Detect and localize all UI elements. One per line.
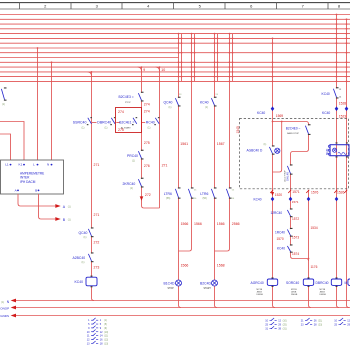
contact A2BC40 <box>73 252 94 264</box>
wire to ammeter K2 <box>0 122 24 161</box>
svg-text:1523: 1523 <box>339 115 347 119</box>
wire column LTR6 aux (x=229.5) <box>215 33 231 251</box>
svg-text:1572: 1572 <box>292 217 299 221</box>
svg-text:KC40: KC40 <box>257 111 265 115</box>
label KC40 at connector <box>254 197 262 201</box>
contact B2C4E3 <box>119 92 144 104</box>
wire number 1526 <box>337 190 345 194</box>
svg-text:1576: 1576 <box>311 190 319 194</box>
svg-text:1526: 1526 <box>337 190 345 194</box>
svg-text:(56): (56) <box>203 197 207 200</box>
svg-text:N: N <box>47 163 49 167</box>
wire number 1176 <box>311 265 318 269</box>
wire number 10 <box>161 68 165 72</box>
wire number 1571 b <box>292 200 299 204</box>
wire number 1566 d <box>181 264 189 268</box>
wire number 1534 <box>311 226 318 230</box>
svg-text:(1): (1) <box>68 206 71 209</box>
svg-text:(12): (12) <box>104 339 108 341</box>
svg-text:L1: L1 <box>5 163 9 167</box>
wire number 1520 <box>275 193 283 197</box>
wire number 1523 <box>339 115 347 119</box>
wire drop to ammeter L4 <box>37 47 39 160</box>
wire number 1528 <box>339 101 347 105</box>
wire pin A to arrow <box>18 194 71 209</box>
pushbutton AGBC40 <box>247 144 280 155</box>
contact DBRC40 <box>97 117 115 130</box>
svg-text:275: 275 <box>118 128 124 132</box>
rail N <box>1 299 350 305</box>
contact QC40 aux <box>79 227 94 239</box>
connector diamond a <box>322 106 338 114</box>
arrow junction col141 <box>140 196 144 200</box>
svg-text:12RC40: 12RC40 <box>271 211 283 215</box>
wire number 1567 <box>217 142 225 146</box>
svg-text:2KRC40: 2KRC40 <box>123 182 136 186</box>
contact KC40 right <box>322 87 342 98</box>
ammeter box AMPEREMETRE INTER IPH DACM <box>1 160 64 194</box>
wire B2C4E0 to SHL40 jog <box>291 124 310 261</box>
wire column node 271 (x=91) <box>91 71 94 301</box>
svg-text:SSRC40: SSRC40 <box>73 120 87 124</box>
svg-text:(25): (25) <box>283 324 287 326</box>
contact 12RC40 <box>271 208 300 220</box>
wire column 1569 (x=272) <box>272 38 275 308</box>
svg-text:SANS STOP: SANS STOP <box>287 132 299 135</box>
terminal switch group B <box>265 318 287 331</box>
svg-text:KC40: KC40 <box>254 197 262 201</box>
terminal switch group D <box>334 318 350 326</box>
wire number 271 <box>94 163 100 167</box>
connector diamond b <box>345 106 349 111</box>
wire number 274 b <box>144 109 150 113</box>
svg-text:PTOP: PTOP <box>125 102 131 104</box>
svg-text:IPH DACM: IPH DACM <box>20 180 36 184</box>
wire column 9 (x=141) <box>141 66 160 208</box>
svg-text:LTR6: LTR6 <box>164 192 172 196</box>
svg-text:Chute STOP: Chute STOP <box>283 170 286 182</box>
svg-text:START: START <box>204 287 212 290</box>
svg-text:(1): (1) <box>2 103 5 106</box>
svg-text:272: 272 <box>94 241 100 245</box>
svg-text:1561: 1561 <box>180 142 188 146</box>
svg-text:(1): (1) <box>130 187 133 190</box>
bus tap stub wires cluster <box>181 34 234 82</box>
contact SHL40 <box>283 164 292 182</box>
svg-text:L: L <box>33 163 35 167</box>
svg-text:(1): (1) <box>132 159 135 162</box>
connector KC40 mid <box>257 106 274 114</box>
wire corner feeds <box>88 67 160 76</box>
wire number 271 right <box>162 164 168 168</box>
svg-text:10: 10 <box>161 68 165 72</box>
svg-text:B2C4E0 ~: B2C4E0 ~ <box>286 127 301 131</box>
svg-text:1566: 1566 <box>181 264 189 268</box>
svg-text:275: 275 <box>144 141 150 145</box>
wire number 274 <box>144 103 150 107</box>
svg-text:(21): (21) <box>318 320 322 322</box>
svg-text:KC40: KC40 <box>277 247 285 251</box>
wire number 1576 <box>311 190 319 194</box>
wire number 1566 c <box>217 222 225 226</box>
svg-text:(1): (1) <box>82 261 85 264</box>
contact LTR6 c <box>200 187 216 200</box>
relay block MC40 <box>327 142 349 157</box>
svg-text:(1): (1) <box>68 219 71 222</box>
wire column 10 (x=159.5) <box>159 66 161 208</box>
contact KC40 lower <box>277 244 299 255</box>
svg-text:274: 274 <box>144 103 150 107</box>
svg-text:(31): (31) <box>283 329 287 331</box>
wire number 1569 <box>276 114 284 118</box>
label 1545 rotated <box>236 126 240 134</box>
svg-text:1520: 1520 <box>275 193 283 197</box>
contact B2C4E0 <box>286 124 311 135</box>
pushbutton B2C4D <box>200 280 218 290</box>
wire number 273 <box>94 266 100 270</box>
column ruler header <box>0 3 350 9</box>
coil edge partial <box>345 279 350 285</box>
terminal switch group left <box>87 318 109 345</box>
svg-text:AGBC40 D: AGBC40 D <box>247 149 263 153</box>
svg-text:B: B <box>35 189 37 193</box>
svg-text:RC40: RC40 <box>146 120 155 124</box>
svg-text:1528: 1528 <box>339 101 347 105</box>
wire number 1566 b <box>194 222 202 226</box>
svg-text:(13): (13) <box>104 343 108 345</box>
svg-text:B2C4D: B2C4D <box>200 281 211 285</box>
wire column KC40 right (x=336.5) <box>336 14 339 308</box>
svg-text:(9): (9) <box>104 328 107 330</box>
dashed group box <box>240 119 349 189</box>
svg-text:1574: 1574 <box>292 252 299 256</box>
wire number 2566 <box>232 222 240 226</box>
wire column LTR6 aux (x=191.7) <box>179 33 193 251</box>
svg-text:(1): (1) <box>264 144 267 146</box>
svg-text:AGRC40: AGRC40 <box>251 281 264 285</box>
svg-text:1573: 1573 <box>292 236 299 240</box>
svg-text:(1): (1) <box>104 320 107 322</box>
svg-text:1534: 1534 <box>311 226 318 230</box>
connector diamond col272 <box>271 197 275 202</box>
wire contact string <box>92 122 145 124</box>
wire column KC40 branch (x=214.5) <box>214 33 217 308</box>
contact left edge <box>1 87 6 106</box>
svg-text:(56): (56) <box>166 197 170 200</box>
svg-text:273: 273 <box>94 266 100 270</box>
svg-text:276: 276 <box>144 164 150 168</box>
svg-text:(10): (10) <box>283 320 287 322</box>
svg-text:(1): (1) <box>148 127 151 130</box>
svg-text:PRC40: PRC40 <box>127 154 138 158</box>
wire number 1566 a <box>181 222 189 226</box>
svg-text:DBRC40: DBRC40 <box>316 281 329 285</box>
wire number 275 <box>144 141 150 145</box>
svg-text:(1): (1) <box>84 236 87 239</box>
pin numbers cluster <box>179 94 219 96</box>
svg-text:(23): (23) <box>318 324 322 326</box>
contact 2KRC40 <box>123 178 144 191</box>
contact QC40 <box>164 97 181 109</box>
svg-text:271: 271 <box>162 164 168 168</box>
svg-text:1566: 1566 <box>194 222 202 226</box>
crossing slash marks dashed edge <box>270 190 347 193</box>
horizontal supply bus wires <box>0 15 350 82</box>
svg-text:B2C4E1 =: B2C4E1 = <box>119 120 134 124</box>
svg-text:(1): (1) <box>82 127 85 130</box>
svg-text:LTR6: LTR6 <box>200 192 208 196</box>
svg-text:QC40: QC40 <box>164 101 173 105</box>
contact PRC40 <box>127 150 144 163</box>
svg-text:A2BC40: A2BC40 <box>73 256 86 260</box>
terminal tags AGRC40 <box>257 289 264 296</box>
connector diamond col336 <box>335 197 339 202</box>
contact B2C4E1 <box>119 117 137 129</box>
svg-text:SORC40: SORC40 <box>286 281 299 285</box>
highlight box B2C4E1 <box>116 108 142 133</box>
contact SSRC40 <box>73 117 92 130</box>
wire number 274 in box <box>118 110 124 114</box>
wire number 1561 <box>180 142 188 146</box>
svg-text:(1): (1) <box>1 301 4 304</box>
svg-text:B1C4D: B1C4D <box>164 281 175 285</box>
contact LTR6 d <box>226 187 235 200</box>
svg-text:(1): (1) <box>105 127 108 130</box>
wire column right edge (x=346.9) <box>346 18 349 307</box>
coil DBRC40 <box>316 277 342 287</box>
svg-text:274: 274 <box>118 110 124 114</box>
svg-text:1568: 1568 <box>217 264 225 268</box>
contact KC40 <box>200 97 217 109</box>
svg-text:2566: 2566 <box>232 222 240 226</box>
wire number 275 in box <box>118 128 124 132</box>
contact 1RC40 <box>275 228 299 241</box>
svg-text:(5): (5) <box>104 324 107 326</box>
wire number 272 <box>94 241 100 245</box>
svg-text:GNDS: GNDS <box>0 314 9 318</box>
wire column QC40 branch (x=178) <box>178 33 181 308</box>
svg-text:9: 9 <box>143 68 145 72</box>
svg-text:M: M <box>345 281 348 285</box>
wire column SORC40 (x=308.5) <box>309 190 312 308</box>
wire number 271 second <box>94 213 100 217</box>
rail ONOP <box>0 306 350 311</box>
svg-text:274: 274 <box>144 109 150 113</box>
coil KC40 <box>75 276 98 288</box>
svg-text:K1: K1 <box>19 163 23 167</box>
svg-text:1571: 1571 <box>292 190 300 194</box>
wire number 272 <box>145 193 151 197</box>
svg-text:KC40: KC40 <box>75 280 84 284</box>
coil AGRC40 <box>251 277 278 287</box>
wire branch to B2C4E0 <box>272 121 309 124</box>
wire number 9 <box>143 68 145 72</box>
coil SORC40 <box>286 277 314 287</box>
contact LTR6 b <box>188 187 197 200</box>
svg-text:STOP: STOP <box>168 288 175 290</box>
svg-text:1566: 1566 <box>217 222 225 226</box>
terminal tags SORC40 <box>291 289 298 296</box>
svg-text:1570: 1570 <box>277 237 284 241</box>
svg-text:QC40: QC40 <box>79 231 88 235</box>
svg-text:KC40: KC40 <box>322 92 330 96</box>
svg-text:271: 271 <box>94 213 100 217</box>
wire from contact to ammeter L1 <box>0 134 11 160</box>
svg-text:1176: 1176 <box>311 265 318 269</box>
svg-text:ONOP: ONOP <box>0 307 9 311</box>
svg-text:272: 272 <box>145 193 151 197</box>
svg-text:1RC40: 1RC40 <box>275 231 285 235</box>
pushbutton B1C4D <box>164 280 182 290</box>
svg-text:DMGB: DMGB <box>320 294 327 296</box>
svg-text:MC40: MC40 <box>327 148 329 155</box>
svg-text:(10): (10) <box>104 332 108 334</box>
svg-text:(1): (1) <box>169 106 172 109</box>
rail GNDS <box>0 314 350 318</box>
contact RC40 <box>146 117 160 130</box>
wire jog 281.7 <box>273 121 283 172</box>
svg-text:1571: 1571 <box>292 200 299 204</box>
svg-text:B2C4E3 =: B2C4E3 = <box>119 95 134 99</box>
wire number 276 <box>144 164 150 168</box>
svg-text:DBRC40: DBRC40 <box>97 120 111 124</box>
svg-text:DMGB: DMGB <box>291 294 298 296</box>
wire number 1571 <box>292 190 300 194</box>
svg-text:1567: 1567 <box>217 142 225 146</box>
wire number 1568 <box>217 264 225 268</box>
arrow down col272 <box>271 192 274 196</box>
connector diamond col308 <box>307 197 311 202</box>
wire pin B to arrow <box>39 194 71 222</box>
wire drop to ammeter N <box>51 61 53 160</box>
svg-text:KC40: KC40 <box>200 101 209 105</box>
terminal switch group C <box>301 318 323 326</box>
svg-text:1545: 1545 <box>236 126 240 134</box>
svg-text:271: 271 <box>94 163 100 167</box>
svg-text:(1): (1) <box>205 106 208 109</box>
svg-text:KC40: KC40 <box>322 111 330 115</box>
svg-text:DMGB: DMGB <box>257 294 264 296</box>
svg-text:1569: 1569 <box>276 114 284 118</box>
svg-text:1566: 1566 <box>181 222 189 226</box>
connector diamond col290 <box>289 197 293 202</box>
svg-text:(11): (11) <box>104 336 108 338</box>
terminal tags DBRC40 <box>320 289 327 296</box>
contact LTR6 a <box>164 187 181 200</box>
